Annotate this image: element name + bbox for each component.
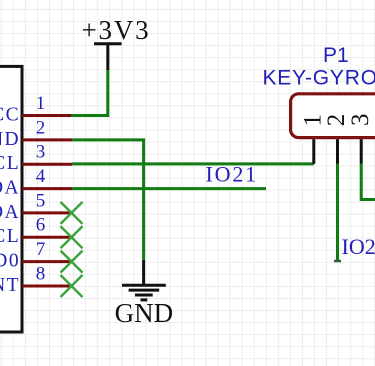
wire P1 pin 3 exiting right (361, 164, 375, 200)
svg-text:2: 2 (36, 117, 46, 138)
svg-text:4: 4 (36, 166, 46, 187)
svg-text:AD0: AD0 (0, 251, 20, 272)
svg-text:+3V3: +3V3 (82, 15, 151, 45)
wire pin 2 to GND (72, 140, 144, 260)
pin 8 (INT) (22, 285, 72, 288)
connector P1 body (291, 94, 375, 138)
no-connect X on pin 7 (61, 251, 83, 273)
IC U1 body (0, 66, 22, 332)
svg-text:3: 3 (347, 113, 374, 126)
ground stem (142, 260, 145, 285)
svg-text:7: 7 (36, 239, 46, 260)
pin 5 (XDA) (22, 211, 72, 214)
no-connect X on pin 5 (61, 202, 83, 224)
svg-text:XCL: XCL (0, 226, 20, 247)
svg-text:SCL: SCL (0, 153, 20, 174)
svg-text:IO21: IO21 (206, 162, 258, 187)
dangling wire end marker (334, 260, 341, 263)
pin 1 (VCC) (22, 114, 72, 117)
svg-text:GND: GND (115, 298, 174, 328)
power symbol +3V3 stem (106, 44, 109, 70)
pin 3 (SCL) (22, 163, 72, 166)
no-connect X on pin 8 (61, 275, 83, 297)
pin 2 (GND) (22, 138, 72, 141)
svg-text:1: 1 (36, 93, 46, 114)
pin 4 (SDA) (22, 187, 72, 190)
P1 pin 1 stem (312, 139, 315, 164)
P1 pin 2 stem (336, 139, 339, 163)
ground bar 2 (129, 289, 160, 292)
svg-text:5: 5 (36, 190, 46, 211)
P1 pin 3 stem (360, 139, 363, 163)
svg-text:3: 3 (36, 142, 46, 163)
power symbol +3V3 bar (94, 42, 122, 45)
svg-text:GND: GND (0, 129, 20, 150)
svg-text:P1: P1 (323, 44, 349, 67)
svg-text:IO22: IO22 (342, 234, 375, 259)
wire pin 3 to P1 pin 1 (72, 162, 314, 165)
ground bar 4 (141, 298, 148, 301)
no-connect X on pin 6 (61, 226, 83, 248)
pin 7 (AD0) (22, 260, 72, 263)
svg-text:8: 8 (36, 263, 46, 284)
svg-text:INT: INT (0, 275, 20, 296)
svg-text:SDA: SDA (0, 178, 20, 199)
svg-text:XDA: XDA (0, 202, 20, 223)
pin 6 (XCL) (22, 236, 72, 239)
svg-text:6: 6 (36, 215, 46, 236)
wire P1 pin 2 net IO22 (336, 164, 339, 262)
wire pin 4 net IO21 (72, 187, 266, 190)
svg-text:KEY-GYROS: KEY-GYROS (263, 66, 375, 89)
svg-text:VCC: VCC (0, 104, 20, 125)
ground bar 3 (135, 294, 153, 297)
ground bar 1 (122, 284, 166, 287)
wire +3V3 to pin 1 (71, 70, 108, 116)
